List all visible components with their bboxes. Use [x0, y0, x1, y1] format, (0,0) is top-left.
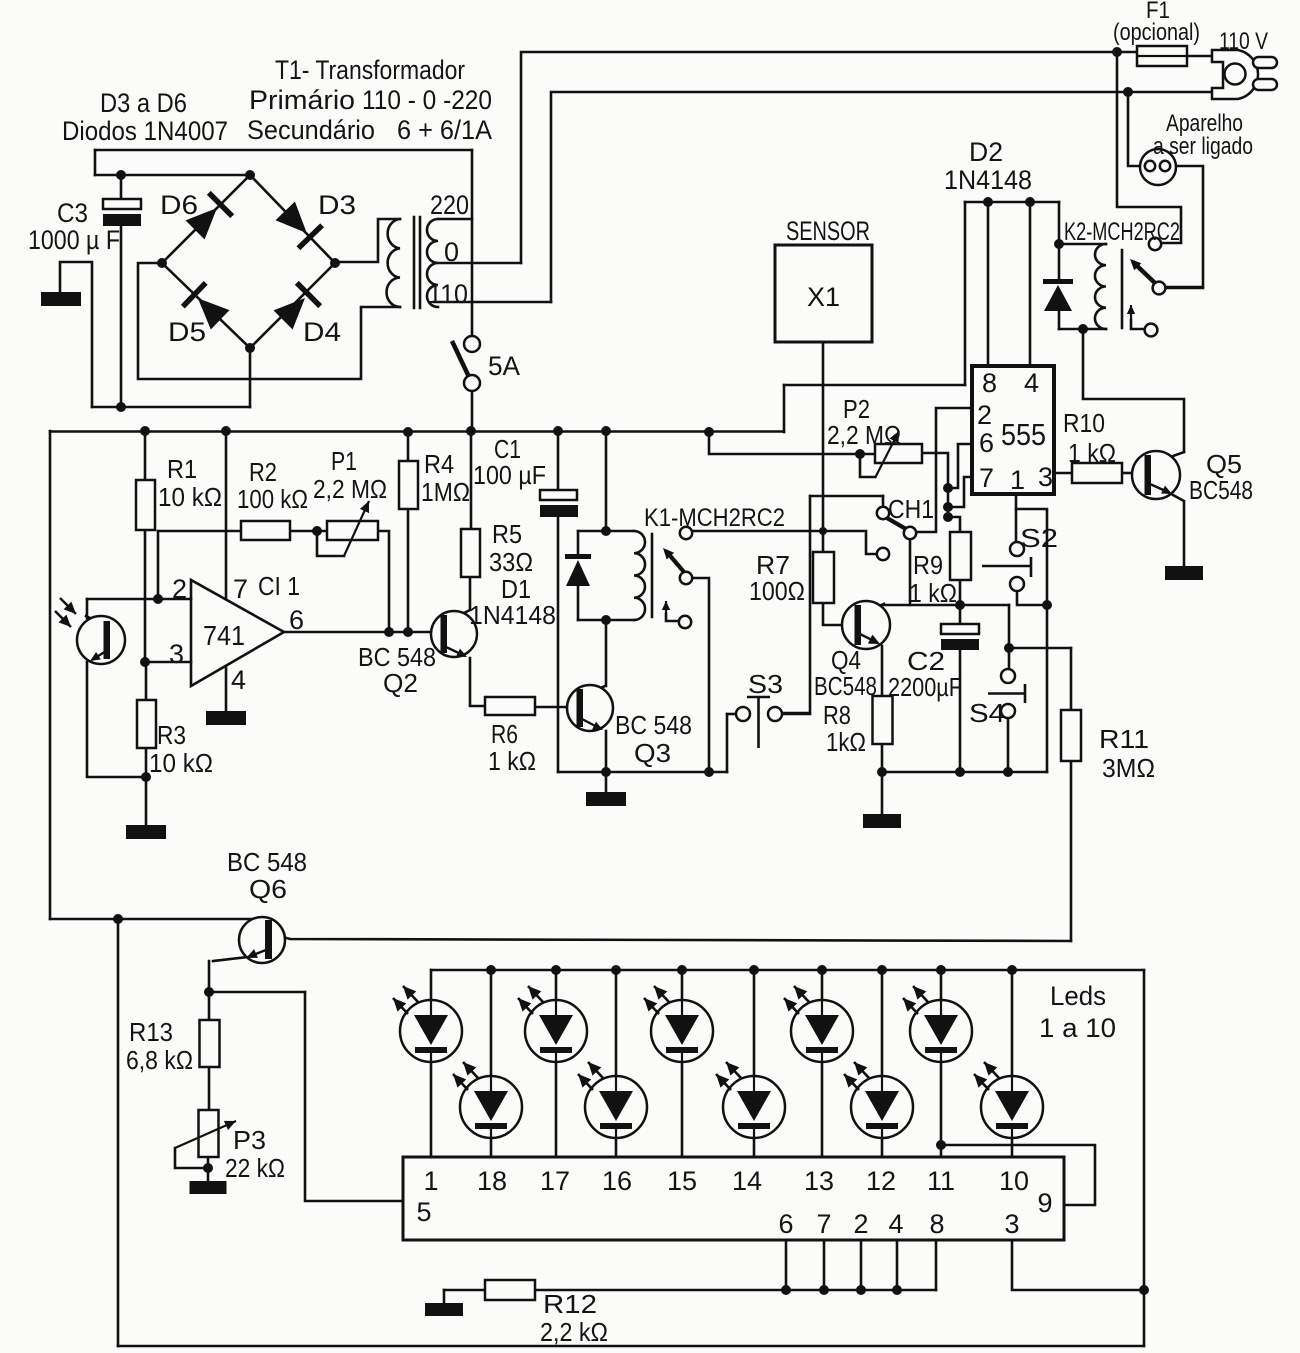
svg-text:0: 0	[444, 237, 459, 267]
svg-text:11: 11	[927, 1166, 955, 1196]
svg-text:22 kΩ: 22 kΩ	[225, 1153, 285, 1183]
svg-text:110: 110	[428, 279, 468, 309]
svg-text:R12: R12	[543, 1289, 597, 1319]
svg-text:1 kΩ: 1 kΩ	[1068, 438, 1116, 468]
svg-text:18: 18	[477, 1166, 507, 1196]
svg-text:555: 555	[1001, 417, 1046, 452]
svg-text:SENSOR: SENSOR	[786, 216, 870, 246]
svg-text:1N4148: 1N4148	[469, 600, 556, 630]
svg-text:6,8 kΩ: 6,8 kΩ	[126, 1045, 193, 1075]
svg-text:110 V: 110 V	[1219, 28, 1268, 55]
svg-text:D5: D5	[168, 317, 206, 347]
svg-text:P1: P1	[331, 446, 357, 476]
svg-text:CH1: CH1	[888, 494, 934, 524]
svg-text:12: 12	[866, 1166, 896, 1196]
svg-text:X1: X1	[807, 282, 840, 312]
svg-text:3: 3	[169, 639, 184, 669]
svg-text:1 a 10: 1 a 10	[1039, 1013, 1116, 1043]
svg-text:7: 7	[816, 1209, 831, 1239]
svg-text:741: 741	[203, 620, 245, 651]
svg-text:K1-MCH2RC2: K1-MCH2RC2	[644, 504, 785, 532]
svg-text:100 kΩ: 100 kΩ	[237, 484, 308, 514]
svg-text:4: 4	[231, 665, 246, 695]
svg-text:R11: R11	[1099, 724, 1149, 754]
svg-text:S3: S3	[748, 669, 783, 699]
svg-text:Primário: Primário	[249, 85, 355, 115]
svg-text:17: 17	[540, 1166, 570, 1196]
svg-text:2: 2	[172, 574, 187, 604]
svg-text:10: 10	[999, 1166, 1029, 1196]
svg-text:8: 8	[929, 1209, 944, 1239]
svg-text:Q2: Q2	[383, 668, 418, 698]
svg-text:220: 220	[430, 190, 469, 220]
svg-text:110 - 0 -220: 110 - 0 -220	[362, 85, 492, 115]
svg-text:1MΩ: 1MΩ	[421, 477, 470, 507]
svg-text:6 + 6/1A: 6 + 6/1A	[397, 115, 492, 145]
svg-text:T1- Transformador: T1- Transformador	[275, 55, 465, 85]
svg-text:2: 2	[977, 400, 992, 430]
svg-text:1: 1	[423, 1166, 438, 1196]
svg-text:2,2 kΩ: 2,2 kΩ	[540, 1317, 608, 1347]
svg-text:BC548: BC548	[1189, 475, 1253, 505]
svg-text:2: 2	[853, 1209, 868, 1239]
svg-text:R5: R5	[492, 519, 522, 549]
svg-text:S4: S4	[969, 698, 1005, 728]
svg-text:R10: R10	[1063, 408, 1105, 438]
svg-text:1N4148: 1N4148	[944, 165, 1032, 195]
svg-text:Leds: Leds	[1050, 981, 1106, 1011]
svg-text:BC 548: BC 548	[227, 847, 307, 877]
svg-text:10 kΩ: 10 kΩ	[149, 748, 213, 778]
svg-text:5: 5	[416, 1197, 431, 1227]
svg-text:3: 3	[1004, 1209, 1019, 1239]
svg-text:16: 16	[602, 1166, 632, 1196]
svg-text:4: 4	[888, 1209, 903, 1239]
svg-text:R4: R4	[424, 449, 454, 479]
svg-text:2,2 MΩ: 2,2 MΩ	[827, 420, 901, 450]
svg-text:6: 6	[979, 428, 994, 458]
svg-text:R6: R6	[491, 719, 518, 749]
svg-text:D4: D4	[303, 317, 341, 347]
svg-text:2,2 MΩ: 2,2 MΩ	[313, 474, 387, 504]
svg-text:9: 9	[1037, 1188, 1052, 1218]
svg-text:R8: R8	[823, 700, 851, 730]
svg-text:33Ω: 33Ω	[489, 547, 533, 577]
svg-text:10 kΩ: 10 kΩ	[158, 482, 222, 512]
svg-text:1kΩ: 1kΩ	[826, 727, 866, 757]
svg-text:CI 1: CI 1	[258, 571, 300, 601]
svg-text:13: 13	[804, 1166, 834, 1196]
svg-text:a ser ligado: a ser ligado	[1153, 133, 1253, 160]
svg-text:K2-MCH2RC2: K2-MCH2RC2	[1064, 218, 1180, 246]
svg-text:BC 548: BC 548	[615, 710, 692, 740]
svg-text:D3 a D6: D3 a D6	[100, 88, 187, 118]
svg-text:P3: P3	[233, 1125, 266, 1155]
svg-text:R9: R9	[913, 550, 943, 580]
svg-text:S2: S2	[1020, 523, 1058, 553]
svg-text:R1: R1	[167, 454, 197, 484]
svg-text:100 µF: 100 µF	[473, 460, 546, 490]
svg-text:R2: R2	[249, 457, 277, 487]
svg-text:R3: R3	[157, 720, 186, 750]
svg-text:14: 14	[732, 1166, 762, 1196]
svg-text:D2: D2	[969, 137, 1003, 167]
svg-text:Diodos 1N4007: Diodos 1N4007	[62, 116, 228, 146]
svg-text:2200µF: 2200µF	[888, 672, 962, 702]
svg-text:1000 µ F: 1000 µ F	[28, 225, 120, 255]
svg-text:C3: C3	[57, 198, 88, 228]
svg-text:7: 7	[233, 574, 248, 604]
svg-text:100Ω: 100Ω	[749, 576, 805, 606]
svg-text:6: 6	[778, 1209, 793, 1239]
svg-text:5A: 5A	[488, 351, 520, 381]
svg-text:(opcional): (opcional)	[1113, 19, 1200, 46]
svg-text:1 kΩ: 1 kΩ	[488, 746, 536, 776]
svg-text:Q6: Q6	[249, 874, 287, 904]
svg-text:R13: R13	[129, 1017, 173, 1047]
svg-text:D3: D3	[318, 190, 356, 220]
svg-text:3: 3	[1038, 462, 1053, 492]
svg-text:Q3: Q3	[634, 738, 671, 768]
svg-text:15: 15	[667, 1166, 697, 1196]
svg-text:Secundário: Secundário	[247, 115, 375, 145]
svg-text:8: 8	[982, 368, 997, 398]
svg-text:4: 4	[1024, 368, 1039, 398]
svg-text:1: 1	[1010, 465, 1025, 495]
svg-text:BC548: BC548	[814, 671, 877, 701]
svg-text:7: 7	[979, 463, 994, 493]
svg-text:6: 6	[289, 605, 304, 635]
svg-text:D6: D6	[160, 190, 198, 220]
svg-text:3MΩ: 3MΩ	[1102, 753, 1155, 783]
svg-text:1 kΩ: 1 kΩ	[909, 578, 957, 608]
